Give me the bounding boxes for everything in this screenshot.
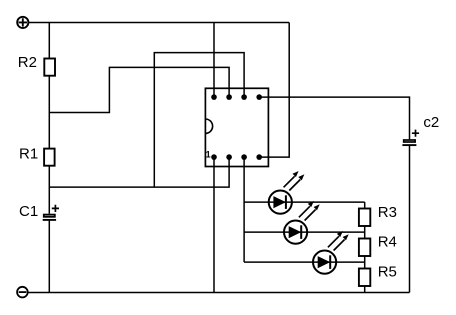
wire: IC pin 7 to R2/R1 junction <box>49 67 229 112</box>
wire: R1/C1 junction to IC pin 2 (trigger line) <box>49 157 229 187</box>
wire: resistor R4 to resistor R5 <box>364 256 366 269</box>
IC U1 pin 1 junction (bottom) <box>211 154 217 160</box>
LED D3 <box>313 231 349 274</box>
wire: LED D1 line down to resistor R3 <box>364 202 366 208</box>
svg-text:R3: R3 <box>378 204 397 221</box>
LED D2 <box>284 201 320 244</box>
capacitor C1 <box>19 203 59 220</box>
IC U1 pin 5 junction (top) <box>256 94 262 100</box>
wire: top rail down and left to IC pin 4 (bottom-right) <box>259 23 289 158</box>
svg-text:C1: C1 <box>19 203 38 220</box>
positive supply terminal <box>17 17 28 28</box>
wire: IC pin 1 down to bottom rail <box>213 157 215 292</box>
wire: resistor R2 to resistor R1 <box>48 76 50 149</box>
resistor R5 <box>359 263 397 286</box>
svg-text:R2: R2 <box>18 54 37 71</box>
wire: IC pin 5 right to capacitor c2 <box>259 97 409 139</box>
svg-text:R4: R4 <box>378 234 397 251</box>
wire: resistor R3 to resistor R4 <box>364 226 366 239</box>
resistor R2 <box>18 54 55 76</box>
capacitor c2 <box>402 114 439 145</box>
IC U1 pin 2 junction (bottom) <box>226 154 232 160</box>
wire: top rail to resistor R2 <box>48 23 50 59</box>
IC U1 pin 7 junction (top) <box>226 94 232 100</box>
IC U1 pin 4 junction (bottom) <box>256 154 262 160</box>
wire: capacitor c2 down to bottom rail <box>409 146 411 293</box>
IC U1 pin 6 junction (top) <box>241 94 247 100</box>
wire: resistor R5 to bottom rail <box>364 286 366 293</box>
svg-text:R1: R1 <box>19 146 38 163</box>
resistor R3 <box>359 204 397 226</box>
IC U1 pin 8 junction (top) <box>211 94 217 100</box>
wire: LED D3 branch line <box>244 261 365 263</box>
wire: IC pin 6 up over and down to trigger line <box>154 53 244 188</box>
svg-text:1: 1 <box>206 150 211 160</box>
wire: top positive rail <box>28 22 289 24</box>
resistor R4 <box>359 234 397 256</box>
resistor R1 <box>19 146 55 166</box>
svg-text:c2: c2 <box>423 114 439 131</box>
IC U1 pin 3 junction (bottom) <box>241 154 247 160</box>
wire: IC pin 3 down to LED feeder <box>243 157 245 262</box>
wire: LED D1 branch line <box>244 201 365 203</box>
LED D1 <box>269 171 305 214</box>
IC U1 body (8-pin DIP) <box>205 88 268 166</box>
negative supply terminal <box>17 287 28 298</box>
wire: capacitor C1 to bottom rail <box>48 220 50 293</box>
wire: LED D2 branch line <box>244 231 365 233</box>
wire: IC pin 8 riser to top rail <box>213 23 215 98</box>
wire: resistor R1 to capacitor C1 <box>48 166 50 214</box>
svg-text:R5: R5 <box>378 263 397 280</box>
wire: bottom negative rail <box>28 292 410 294</box>
